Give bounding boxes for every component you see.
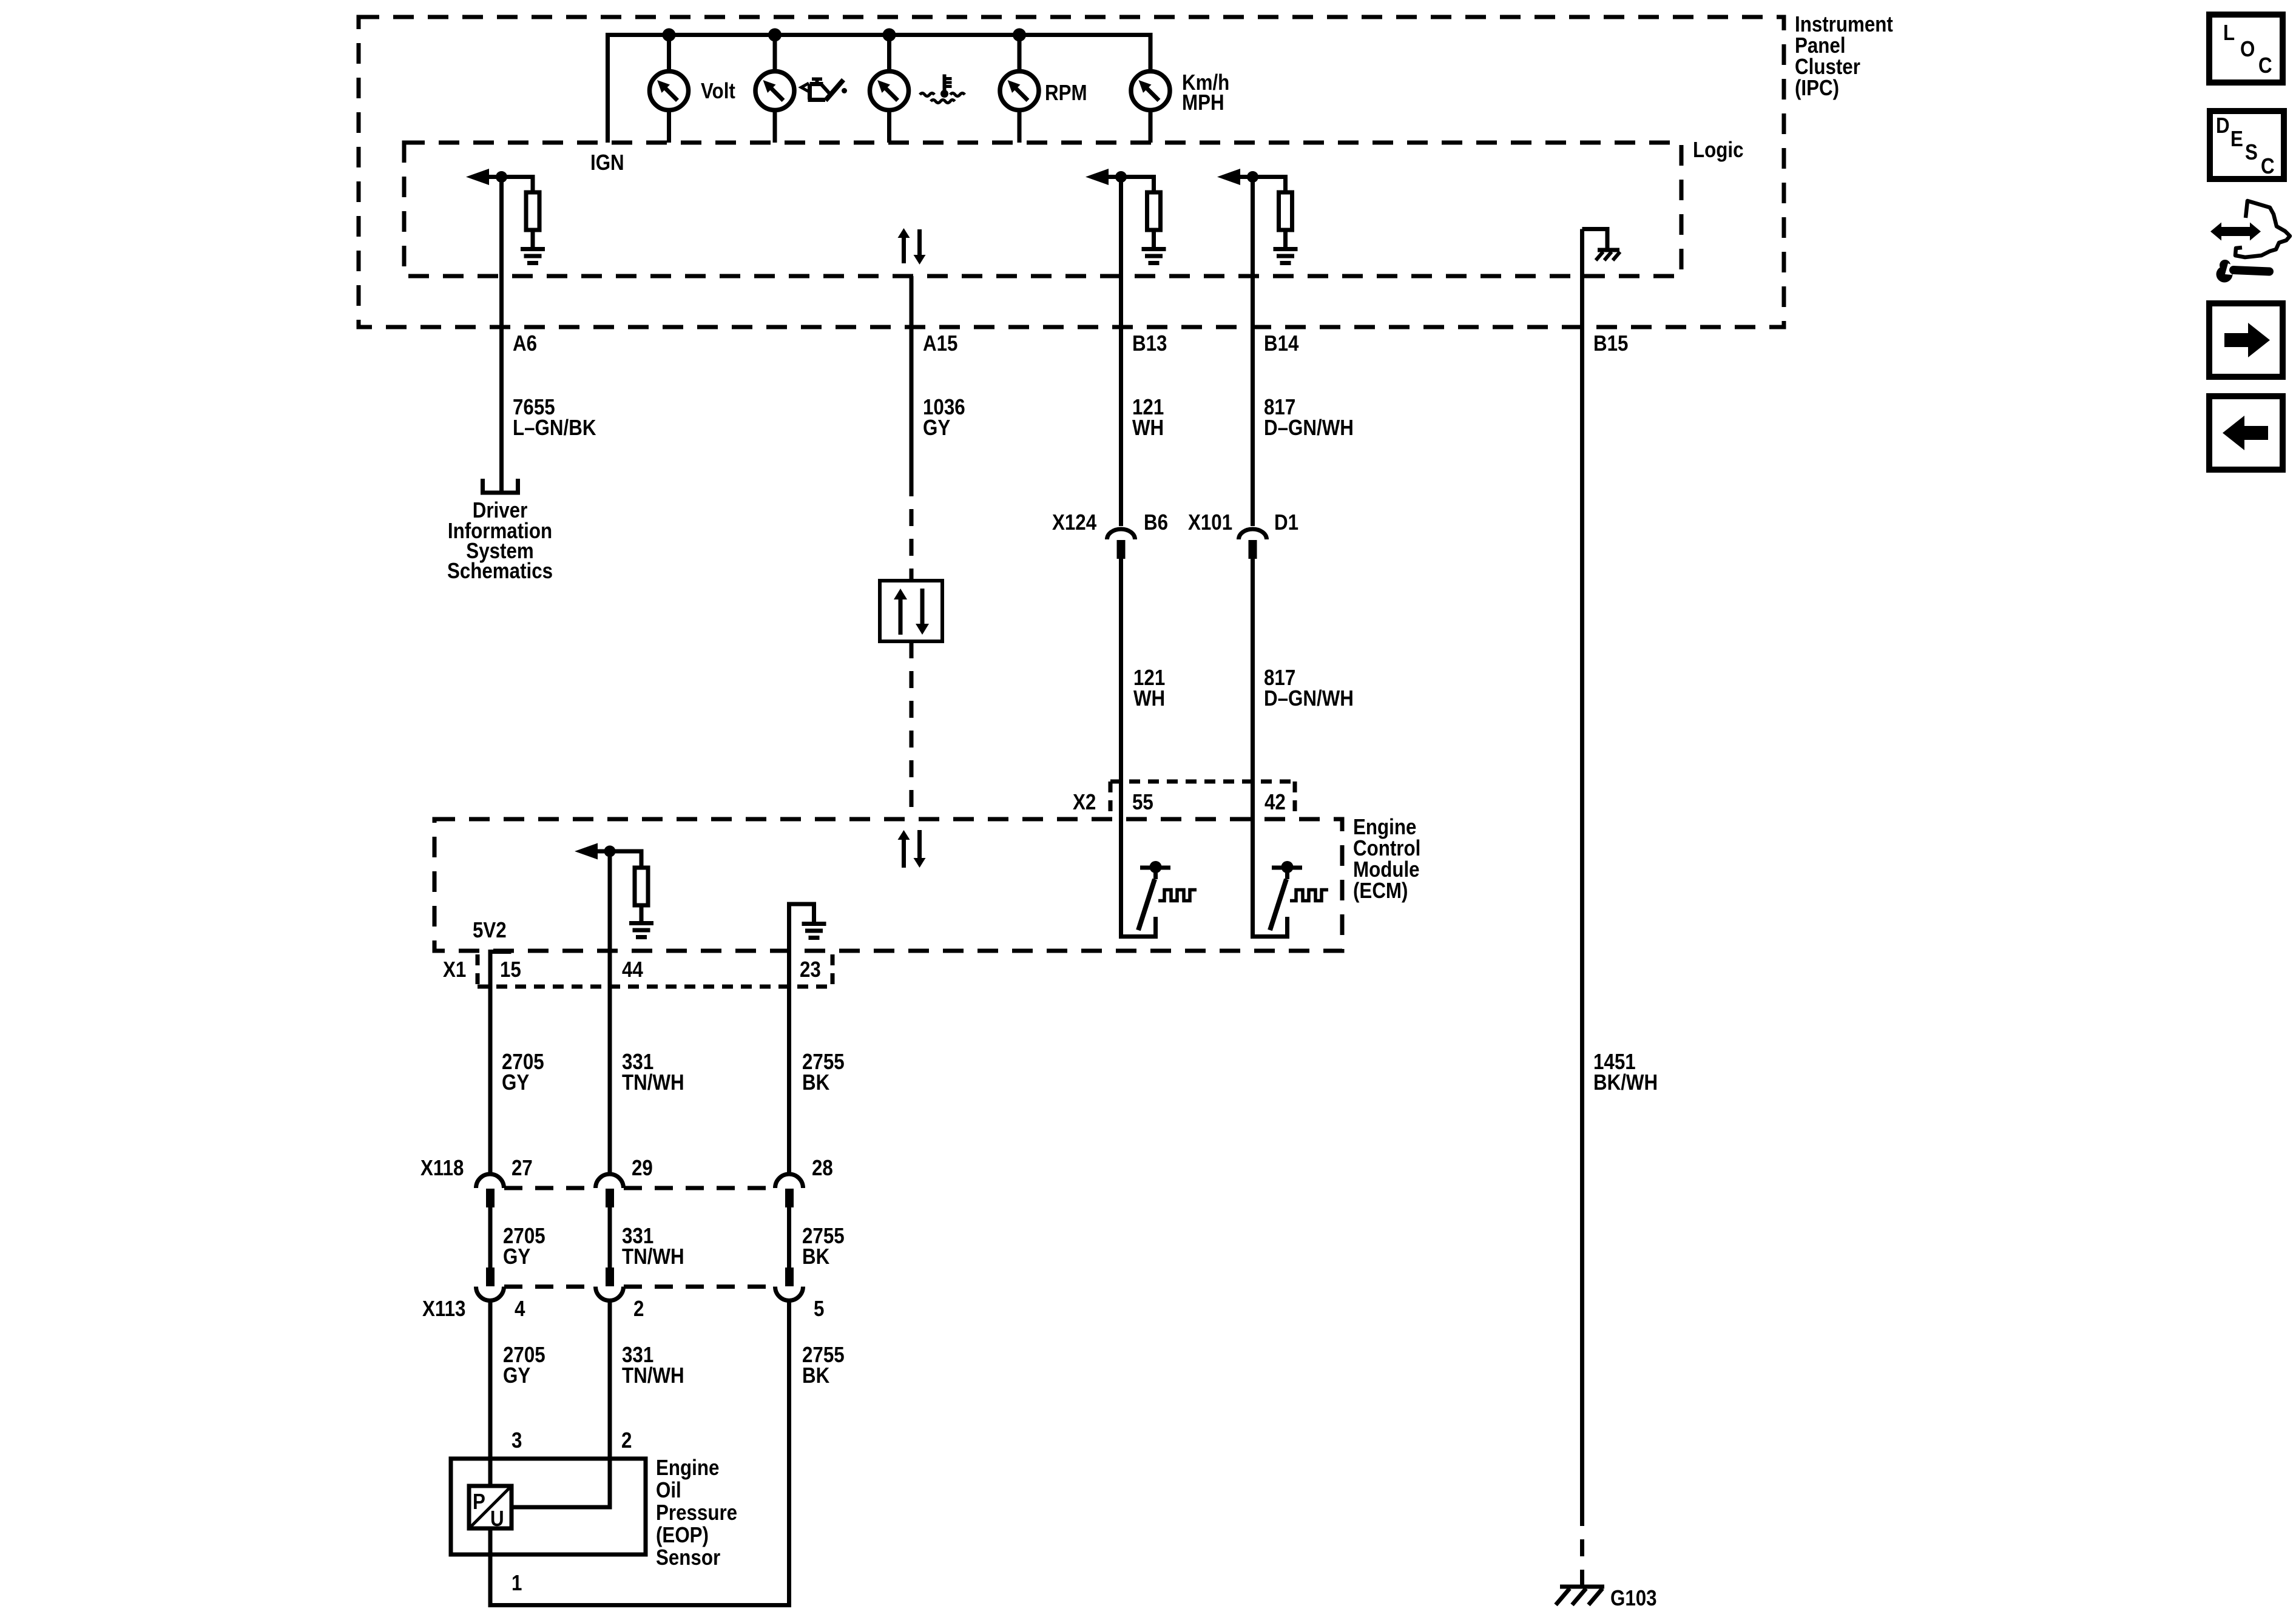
svg-text:RPM: RPM (1045, 81, 1087, 106)
junction node pin 44 (604, 846, 616, 857)
connector X118 pin 29 (596, 1174, 624, 1207)
svg-text:BK/WH: BK/WH (1593, 1070, 1658, 1095)
wire B15 vertical long (1580, 229, 1584, 1510)
wire B15 dashed lower (1580, 1509, 1584, 1585)
svg-text:5V2: 5V2 (473, 918, 507, 943)
wire label 2705 GY row2 (503, 1224, 545, 1269)
svg-text:B14: B14 (1264, 331, 1299, 356)
svg-text:GY: GY (502, 1070, 529, 1095)
svg-text:Volt: Volt (701, 79, 735, 104)
ground (logic) below R-A6 (521, 247, 545, 265)
wire label 7655 L-GN/BK (513, 395, 596, 441)
wire B13 vertical upper (1119, 177, 1123, 527)
svg-text:A15: A15 (923, 331, 957, 356)
svg-text:S: S (2245, 140, 2258, 165)
connector X124 pin B6 (1107, 529, 1135, 559)
svg-text:L: L (2223, 21, 2235, 46)
wire stub volt gauge (667, 35, 671, 143)
svg-text:B15: B15 (1593, 331, 1628, 356)
gauge G5 speedometer (1131, 72, 1170, 110)
connector row X113 harness line (504, 1284, 775, 1289)
connector X113 pin 2 (596, 1268, 624, 1301)
wire label 2705 GY row1 (502, 1050, 544, 1095)
svg-text:GY: GY (923, 416, 950, 441)
junction node A6 branch (496, 171, 507, 183)
svg-text:GY: GY (503, 1244, 530, 1269)
svg-text:29: 29 (632, 1156, 653, 1181)
svg-text:IGN: IGN (590, 150, 624, 175)
svg-text:28: 28 (812, 1156, 833, 1181)
ground elbow pin 23 (787, 904, 826, 940)
wire stub temp gauge (887, 35, 891, 143)
svg-text:C: C (2261, 154, 2275, 179)
svg-text:X2: X2 (1073, 790, 1096, 815)
svg-text:27: 27 (512, 1156, 533, 1181)
resistor R-A6 pull-up (502, 177, 540, 248)
svg-text:Oil: Oil (656, 1478, 681, 1503)
wire IGN feed bus (608, 35, 1151, 143)
svg-text:X1: X1 (443, 957, 466, 982)
output driver Q55 (speed) (1138, 861, 1197, 930)
svg-text:15: 15 (500, 957, 521, 982)
wire pin3 inside sensor (488, 1459, 493, 1486)
wire label 1036 GY (923, 395, 965, 441)
wire 331 TN/WH (X113 to sensor pin 2) (608, 1301, 612, 1508)
wire label 331 TN/WH row1 (622, 1050, 684, 1095)
gauge G1 voltmeter (650, 72, 689, 110)
connector X118 pin 27 (476, 1174, 504, 1207)
off-page connector Driver Information System Schematics (483, 479, 518, 493)
svg-text:BK: BK (802, 1070, 830, 1095)
svg-text:X124: X124 (1052, 510, 1096, 535)
Engine Control Module (ECM) dashed box (434, 819, 1342, 951)
wire label 2755 BK row2 (802, 1224, 845, 1269)
svg-text:D1: D1 (1274, 510, 1298, 535)
wire stub RPM gauge (1018, 35, 1022, 143)
svg-text:X101: X101 (1188, 510, 1232, 535)
svg-text:BK: BK (802, 1244, 830, 1269)
svg-text:WH: WH (1133, 686, 1165, 711)
signal arrow B13 (speed signal) (1086, 169, 1121, 185)
pressure transducer P/U element (469, 1486, 512, 1531)
svg-text:5: 5 (814, 1297, 824, 1322)
ground G103 (1556, 1587, 1604, 1605)
wire 2705 GY (X113 to sensor pin 3) (488, 1301, 493, 1487)
junction dot bus-Volt (663, 29, 676, 42)
svg-text:1: 1 (512, 1571, 522, 1596)
wire label 1451 BK/WH (1593, 1050, 1658, 1095)
Engine Oil Pressure (EOP) Sensor box (451, 1459, 646, 1555)
serial data arrows at A15 (logic) (898, 228, 926, 265)
gauge G2 oil pressure (755, 72, 794, 110)
svg-text:D–GN/WH: D–GN/WH (1264, 686, 1354, 711)
chassis ground B15 (IPC internal) (1582, 229, 1621, 261)
svg-text:E: E (2230, 127, 2243, 152)
5V reference elbow (pin 15) (490, 950, 512, 952)
svg-text:2: 2 (621, 1428, 632, 1453)
svg-text:3: 3 (512, 1428, 522, 1453)
wire label 121 WH upper (1132, 395, 1164, 441)
svg-text:2: 2 (633, 1297, 644, 1322)
label Instrument Panel Cluster (IPC) (1795, 12, 1893, 101)
wire label 121 WH lower (1133, 666, 1165, 711)
wire 2705 GY (pin 15 to X118) (488, 952, 493, 1175)
wire 331 TN/WH (pin 44 to X118) (608, 851, 612, 1174)
svg-text:D: D (2216, 113, 2230, 138)
connector row X2 (ECM) (1110, 781, 1295, 819)
wire B14 vertical upper (1251, 177, 1255, 527)
wire B13 lower (121 WH) (1121, 559, 1156, 937)
sidebar icon DESC box (2210, 111, 2284, 179)
svg-text:(ECM): (ECM) (1353, 879, 1408, 903)
label Engine Control Module (ECM) (1353, 815, 1420, 903)
wire label 2755 BK row3 (802, 1343, 845, 1388)
svg-text:Pressure: Pressure (656, 1501, 737, 1525)
connector row X1 (ECM) (478, 954, 832, 987)
svg-text:Schematics: Schematics (447, 559, 553, 584)
svg-text:BK: BK (802, 1363, 830, 1388)
wire sensor pin 1 return (490, 1301, 789, 1605)
svg-text:55: 55 (1132, 790, 1153, 815)
wire label 331 TN/WH row3 (622, 1343, 684, 1388)
Instrument Panel Cluster (IPC) dashed box (359, 17, 1784, 327)
wire label 2755 BK row1 (802, 1050, 845, 1095)
signal arrow pin 44 (575, 843, 610, 860)
sidebar icon back arrow box (2209, 396, 2283, 470)
sidebar icon LOC box (2209, 15, 2283, 83)
svg-text:GY: GY (503, 1363, 530, 1388)
svg-text:MPH: MPH (1182, 90, 1224, 115)
svg-text:(EOP): (EOP) (656, 1523, 709, 1548)
svg-text:B13: B13 (1132, 331, 1167, 356)
svg-text:42: 42 (1264, 790, 1286, 815)
gauge G3 coolant temperature (870, 72, 909, 110)
ground (logic) below R-B14 (1274, 247, 1298, 265)
junction node B13 branch (1115, 171, 1127, 183)
wire label 817 D-GN/WH upper (1264, 395, 1354, 441)
wire stub oil gauge (773, 35, 777, 143)
junction dot bus-oil (768, 29, 782, 42)
icon oil can (802, 78, 848, 101)
svg-text:B6: B6 (1144, 510, 1168, 535)
serial data arrows (ECM side) (898, 830, 926, 868)
label Engine Oil Pressure (EOP) Sensor (656, 1456, 737, 1570)
svg-text:C: C (2258, 53, 2272, 78)
svg-text:23: 23 (800, 957, 821, 982)
resistor R-B14 pull-up (1253, 177, 1292, 248)
svg-text:G103: G103 (1610, 1586, 1657, 1611)
signal arrow B14 (tach signal) (1217, 169, 1253, 185)
label Driver Information System Schematics (447, 498, 553, 584)
signal arrow A6 (volts output) (466, 169, 502, 185)
connector row X118 harness line (504, 1186, 775, 1190)
icon coolant temp (920, 75, 965, 103)
svg-text:Sensor: Sensor (656, 1545, 720, 1570)
wire A6 vertical (499, 177, 504, 493)
svg-text:TN/WH: TN/WH (622, 1244, 684, 1269)
svg-text:P: P (473, 1490, 485, 1514)
junction node B14 branch (1247, 171, 1258, 183)
svg-text:44: 44 (622, 957, 643, 982)
svg-text:X113: X113 (422, 1297, 465, 1322)
svg-text:(IPC): (IPC) (1795, 76, 1839, 101)
junction dot bus-temp (883, 29, 896, 42)
wire serial data dashed to ECM (910, 641, 914, 819)
wire 331 TN/WH (X118 to X113) (608, 1207, 612, 1268)
junction dot bus-RPM (1013, 29, 1026, 42)
svg-text:Engine: Engine (656, 1456, 719, 1480)
wire 2705 GY (X118 to X113) (488, 1207, 493, 1268)
wire A15 serial data solid (910, 276, 914, 479)
sidebar icon forward arrow box (2209, 303, 2283, 377)
connector X113 pin 5 (775, 1268, 803, 1301)
gauge G4 tachometer (1000, 72, 1039, 110)
wire pin2 inside sensor (512, 1459, 610, 1507)
wire 2755 BK (X118 to X113) (787, 1207, 791, 1268)
resistor R-B13 pull-up (1121, 177, 1161, 248)
Logic dashed box (404, 143, 1681, 276)
connector X118 pin 28 (775, 1174, 803, 1207)
wire stub speedo gauge (1149, 112, 1153, 143)
wire label 817 D-GN/WH lower (1264, 666, 1354, 711)
svg-text:L–GN/BK: L–GN/BK (513, 416, 596, 441)
sidebar icon data link connector with wrench (2210, 201, 2290, 283)
svg-text:D–GN/WH: D–GN/WH (1264, 416, 1354, 441)
wire label 2705 GY row3 (503, 1343, 545, 1388)
wire 2755 BK (pin 23 to X118) (787, 904, 791, 1174)
connector X113 pin 4 (476, 1268, 504, 1301)
svg-text:Logic: Logic (1693, 138, 1743, 163)
svg-text:4: 4 (515, 1297, 525, 1322)
svg-text:TN/WH: TN/WH (622, 1070, 684, 1095)
svg-text:O: O (2240, 37, 2255, 62)
wire A15 serial data dashed (910, 479, 914, 581)
ground (logic) below R-B13 (1142, 247, 1166, 265)
ground (ECM) below R-44 (629, 921, 653, 939)
output driver Q42 (tach) (1270, 861, 1328, 930)
svg-text:X118: X118 (420, 1156, 464, 1181)
wire 2755 BK (X113 to sensor pin 1) (787, 1301, 791, 1607)
svg-text:WH: WH (1132, 416, 1164, 441)
serial data link box (880, 581, 942, 641)
connector X101 pin D1 (1239, 529, 1267, 559)
wire B14 lower (817 D-GN/WH) (1253, 559, 1288, 937)
svg-text:TN/WH: TN/WH (622, 1363, 684, 1388)
wire label 331 TN/WH row2 (622, 1224, 684, 1269)
svg-text:U: U (490, 1507, 504, 1531)
resistor R-44 pull-up (610, 851, 648, 921)
svg-text:A6: A6 (513, 331, 537, 356)
